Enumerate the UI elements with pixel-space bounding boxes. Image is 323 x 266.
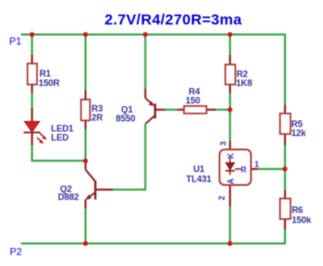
svg-text:K: K	[226, 153, 235, 159]
svg-text:2.7V/R4/270R=3ma: 2.7V/R4/270R=3ma	[105, 12, 243, 29]
resistor R5	[280, 105, 307, 145]
wire Q1 collector to Q2 base	[113, 124, 145, 190]
wire R1 to LED1	[31, 93, 33, 109]
svg-text:3: 3	[219, 141, 228, 146]
wire bottom rail	[21, 230, 285, 244]
svg-text:P2: P2	[10, 247, 23, 258]
op-amp U1 TL431	[186, 141, 259, 207]
svg-text:150k: 150k	[292, 215, 313, 225]
svg-text:P1: P1	[9, 37, 22, 48]
svg-text:1: 1	[255, 160, 260, 169]
svg-text:D882: D882	[58, 192, 79, 202]
svg-text:TL431: TL431	[186, 174, 211, 184]
wire U1 pin 2 to bottom rail	[229, 207, 231, 244]
junction dot node C	[283, 167, 288, 172]
resistor R6	[280, 190, 312, 230]
svg-text:R1: R1	[40, 68, 51, 78]
transistor Q1	[116, 89, 165, 124]
junction dot node B	[228, 107, 233, 112]
svg-text:R6: R6	[292, 205, 303, 215]
svg-text:U1: U1	[193, 164, 204, 174]
wire top rail	[21, 35, 285, 106]
terminal P1	[9, 37, 22, 48]
wire R1 top	[31, 36, 33, 56]
junction dot bottom U1	[228, 241, 233, 246]
wire R3 top	[85, 36, 87, 91]
resistor R2	[225, 55, 252, 93]
terminal P2	[10, 247, 23, 258]
wire node B to U1 pin 3	[229, 110, 231, 141]
junction dot top Q1	[143, 32, 148, 37]
wire R4 to node B	[216, 109, 230, 111]
resistor R1	[28, 55, 61, 93]
LED LED1	[24, 108, 74, 145]
wire R3 bottom to node A	[85, 129, 87, 161]
junction dot bottom Q2	[83, 241, 88, 246]
wire Q1 base to R4	[165, 109, 177, 111]
transistor Q2	[58, 161, 113, 209]
junction dot top R3	[83, 32, 88, 37]
wire R2 bottom to node B	[229, 93, 231, 110]
wire Q1 emitter top	[144, 36, 146, 89]
junction dot top R1	[30, 32, 35, 37]
wire U1 pin 1 to node C	[258, 168, 285, 170]
svg-text:A: A	[226, 178, 235, 184]
resistor R4	[177, 86, 216, 113]
svg-text:R: R	[241, 165, 247, 174]
svg-text:2R: 2R	[92, 113, 104, 123]
svg-text:8550: 8550	[116, 114, 136, 124]
wire R2 top	[229, 36, 231, 56]
wire R5 bottom to R6	[284, 145, 286, 190]
resistor R3	[81, 91, 103, 130]
title text	[105, 12, 243, 29]
svg-text:1K8: 1K8	[236, 78, 252, 88]
wire LED1 to node A	[32, 145, 86, 161]
svg-text:12k: 12k	[291, 128, 307, 138]
svg-text:150R: 150R	[39, 78, 61, 88]
svg-text:2: 2	[217, 195, 226, 200]
svg-text:LED: LED	[51, 133, 69, 143]
junction dot top R2	[228, 32, 233, 37]
wire Q2 emitter to bottom rail	[85, 209, 87, 244]
junction dot node A	[83, 159, 88, 164]
svg-text:150: 150	[186, 96, 201, 106]
